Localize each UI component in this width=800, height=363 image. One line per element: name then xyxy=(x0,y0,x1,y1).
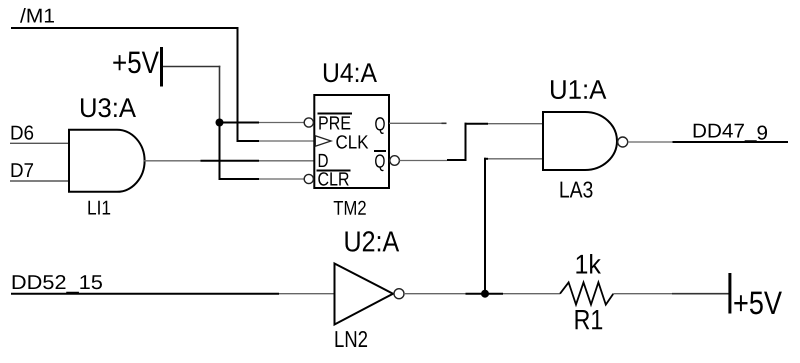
node D6 label xyxy=(12,126,34,140)
junction dot +5V/PRE xyxy=(216,119,224,127)
pin Q label xyxy=(375,117,385,134)
wire R1 left lead xyxy=(503,293,560,295)
wire D7 pin lead xyxy=(10,180,69,182)
wire /M1 vertical xyxy=(237,27,239,142)
power +5V top label xyxy=(113,52,159,74)
wire Qbar net horizontal low xyxy=(447,159,467,161)
power +5V top bar xyxy=(160,47,163,87)
pin CLK label xyxy=(336,135,368,148)
wire Q stub xyxy=(389,122,442,124)
gate U1:A refdes LA3 xyxy=(560,181,592,197)
flip-flop refdes TM2 xyxy=(334,201,366,215)
pin CLR label xyxy=(318,172,348,185)
pin bubble Qbar xyxy=(390,156,400,166)
wire PRE pin lead xyxy=(259,122,304,124)
wire Q stub tip xyxy=(442,122,447,124)
flip-flop U4:A box xyxy=(314,95,389,188)
resistor R1 value 1k xyxy=(576,254,601,274)
wire /M1 horizontal xyxy=(11,27,239,29)
wire NAND bottom corner xyxy=(484,158,488,160)
node D7 label xyxy=(12,163,34,177)
pin bubble CLR xyxy=(304,174,313,183)
wire to +5V right xyxy=(672,293,729,295)
wire NAND top input lead xyxy=(488,123,543,125)
inverter output bubble xyxy=(394,289,404,299)
wire vertical to junction xyxy=(484,158,486,294)
wire DD52_15 net xyxy=(11,293,279,295)
wire /M1 to CLK pin xyxy=(237,140,260,142)
inverter U2:A body xyxy=(335,264,394,325)
wire Qbar pin lead xyxy=(399,160,447,162)
gate U1:A label xyxy=(551,80,606,99)
wire Qbar net horizontal high xyxy=(465,123,489,125)
NAND gate U1:A body xyxy=(543,112,617,170)
wire +5V net vertical to CLR xyxy=(219,123,221,181)
wire R1 right lead xyxy=(613,293,672,295)
gate U3:A label xyxy=(81,98,136,117)
wire PRE net xyxy=(220,122,260,124)
gate U2:A refdes LN2 xyxy=(336,331,368,347)
wire CLK pin lead xyxy=(259,140,314,142)
AND gate U3:A body xyxy=(69,130,145,192)
wire D pin lead xyxy=(259,160,314,162)
gate U2:A label xyxy=(345,231,399,252)
power +5V right bar xyxy=(728,273,731,314)
wire Qbar net vertical xyxy=(465,123,467,161)
wire junction tick xyxy=(466,293,504,295)
pin Qbar overline xyxy=(374,150,386,152)
wire +5V lead vertical xyxy=(219,66,221,123)
node DD47_9 label xyxy=(694,124,767,142)
wire NAND output lead xyxy=(628,141,673,143)
resistor R1 zigzag xyxy=(560,282,613,304)
flip-flop U4:A label xyxy=(324,63,377,82)
wire CLR pin lead xyxy=(259,178,304,180)
wire D net xyxy=(201,160,260,162)
pin D label xyxy=(319,154,328,167)
pin Qbar label xyxy=(375,154,385,171)
wire U3 output pin lead xyxy=(144,160,201,162)
wire NAND bottom input lead xyxy=(488,158,543,160)
pin PRE overline xyxy=(318,113,353,115)
wire U2 input lead xyxy=(279,293,335,295)
node DD52_15 label xyxy=(13,275,102,293)
node /M1 label xyxy=(20,8,54,23)
pin bubble PRE xyxy=(304,118,313,127)
power +5V right label xyxy=(734,292,782,315)
pin PRE label xyxy=(319,116,350,129)
wire D6 pin lead xyxy=(10,142,69,144)
junction dot U2/R1 xyxy=(481,290,489,298)
wire CLR net xyxy=(219,178,260,180)
pin CLR overline xyxy=(317,170,351,172)
resistor R1 refdes xyxy=(576,310,603,329)
wire U2 output lead xyxy=(404,293,466,295)
gate U3:A refdes LI1 xyxy=(88,201,110,215)
wire DD47_9 net xyxy=(673,141,789,143)
NAND output bubble xyxy=(618,137,628,147)
wire +5V lead horizontal xyxy=(163,66,220,68)
pin CLK edge triangle xyxy=(315,136,331,146)
